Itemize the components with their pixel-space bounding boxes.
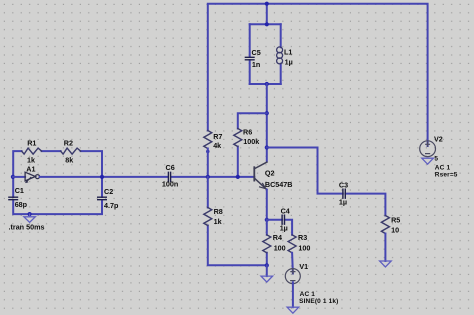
- svg-text:C2: C2: [104, 187, 113, 196]
- capacitor C2: [98, 197, 107, 200]
- svg-text:8k: 8k: [65, 155, 73, 164]
- wire R5 bottom: [384, 234, 386, 262]
- wire R7 bottom: [207, 149, 209, 177]
- svg-text:68p: 68p: [15, 200, 28, 209]
- wire A1 input: [13, 176, 25, 178]
- wire R3 to V1: [291, 253, 294, 274]
- wire R4 leads: [266, 220, 268, 266]
- resistor R3: [288, 235, 296, 253]
- svg-text:10: 10: [391, 225, 399, 234]
- junction R7 bottom pin: [206, 150, 209, 153]
- wire tank bottom rail: [250, 83, 281, 85]
- transistor Q2: [254, 162, 266, 189]
- junction C2 column: [100, 175, 104, 179]
- svg-text:R3: R3: [298, 233, 307, 242]
- svg-text:AC 1: AC 1: [300, 291, 316, 298]
- svg-text:.tran 50ms: .tran 50ms: [9, 222, 45, 231]
- wire left loop: [13, 151, 102, 214]
- resistor R2: [61, 148, 81, 154]
- wire mid (A1 out to Q2 base, through C6): [40, 176, 255, 178]
- inductor L1: [277, 47, 283, 64]
- wire C4 branch: [267, 220, 292, 235]
- svg-text:C1: C1: [15, 186, 24, 195]
- svg-text:1µ: 1µ: [339, 198, 347, 207]
- svg-text:100k: 100k: [243, 137, 259, 146]
- svg-text:5: 5: [434, 155, 438, 162]
- wire C5 leads: [249, 24, 251, 84]
- ground R4 junction: [261, 276, 273, 282]
- resistor R7: [204, 131, 212, 149]
- svg-text:1µ: 1µ: [285, 58, 293, 67]
- svg-text:4.7p: 4.7p: [104, 201, 119, 210]
- resistor R6: [234, 129, 242, 147]
- svg-text:1k: 1k: [214, 217, 222, 226]
- resistor R8: [204, 208, 212, 226]
- wire tank feed: [266, 4, 268, 25]
- wire L1 leads: [280, 24, 282, 84]
- resistor R5: [381, 216, 389, 234]
- svg-text:100n: 100n: [162, 180, 178, 189]
- junction R4/R8 ground: [265, 263, 269, 267]
- ground V2: [422, 158, 434, 164]
- wire output to C3: [267, 148, 386, 216]
- junction emitter/C4: [265, 218, 269, 222]
- voltage source V1: [285, 269, 300, 284]
- svg-text:R8: R8: [214, 207, 223, 216]
- junction A1 input: [11, 175, 15, 179]
- resistor R1: [22, 148, 42, 154]
- op-amp inverter A1: [25, 172, 39, 183]
- junction tank bottom: [265, 82, 269, 86]
- svg-text:1k: 1k: [27, 155, 35, 164]
- capacitor C1: [9, 197, 18, 200]
- svg-text:R2: R2: [64, 139, 73, 148]
- wire tank top rail: [250, 23, 281, 25]
- wire emitter column: [266, 190, 268, 220]
- svg-text:R4: R4: [273, 233, 282, 242]
- svg-text:C6: C6: [166, 163, 175, 172]
- wire V1 to ground: [292, 282, 294, 307]
- svg-text:V1: V1: [299, 262, 308, 271]
- ground R5: [380, 261, 392, 267]
- ground C1: [24, 214, 35, 222]
- wire top rail with left drop to R7 and right drop to V2: [208, 4, 428, 146]
- wire R8: [208, 177, 267, 265]
- wire collector column: [266, 84, 268, 162]
- junction top rail/tank: [265, 2, 269, 6]
- capacitor C5: [245, 57, 254, 60]
- voltage source V2: [420, 141, 436, 157]
- svg-text:AC 1: AC 1: [435, 165, 451, 172]
- svg-text:V2: V2: [434, 135, 443, 144]
- svg-text:C3: C3: [339, 181, 348, 190]
- capacitor C4: [282, 215, 284, 224]
- capacitor C6: [168, 172, 170, 181]
- svg-text:L1: L1: [284, 48, 292, 57]
- junction tank top: [265, 22, 269, 26]
- svg-text:Rser=5: Rser=5: [435, 172, 458, 179]
- svg-text:A1: A1: [26, 164, 35, 173]
- svg-text:100: 100: [298, 243, 310, 252]
- junction collector output: [265, 145, 269, 149]
- svg-text:BC547B: BC547B: [265, 180, 293, 189]
- wire R6 top: [238, 113, 267, 177]
- svg-text:C5: C5: [252, 48, 261, 57]
- svg-text:100: 100: [274, 243, 286, 252]
- svg-text:R1: R1: [27, 139, 36, 148]
- svg-text:1n: 1n: [252, 60, 260, 69]
- svg-text:4k: 4k: [213, 141, 221, 150]
- svg-text:C4: C4: [281, 207, 290, 216]
- junction R6 bottom/base: [236, 175, 240, 179]
- svg-text:SINE(0 1 1k): SINE(0 1 1k): [299, 298, 338, 305]
- junction C1 ground: [28, 212, 32, 216]
- junction mid/R7R8: [206, 175, 210, 179]
- svg-text:R5: R5: [391, 216, 400, 225]
- resistor R4: [263, 235, 271, 253]
- wire ground stub: [266, 265, 268, 276]
- capacitor C3: [343, 189, 345, 198]
- svg-text:Q2: Q2: [265, 168, 275, 177]
- svg-text:R6: R6: [243, 127, 252, 136]
- ground V1: [287, 307, 299, 313]
- junction R6 top: [265, 111, 269, 115]
- svg-text:R7: R7: [213, 132, 222, 141]
- svg-text:1µ: 1µ: [280, 223, 288, 232]
